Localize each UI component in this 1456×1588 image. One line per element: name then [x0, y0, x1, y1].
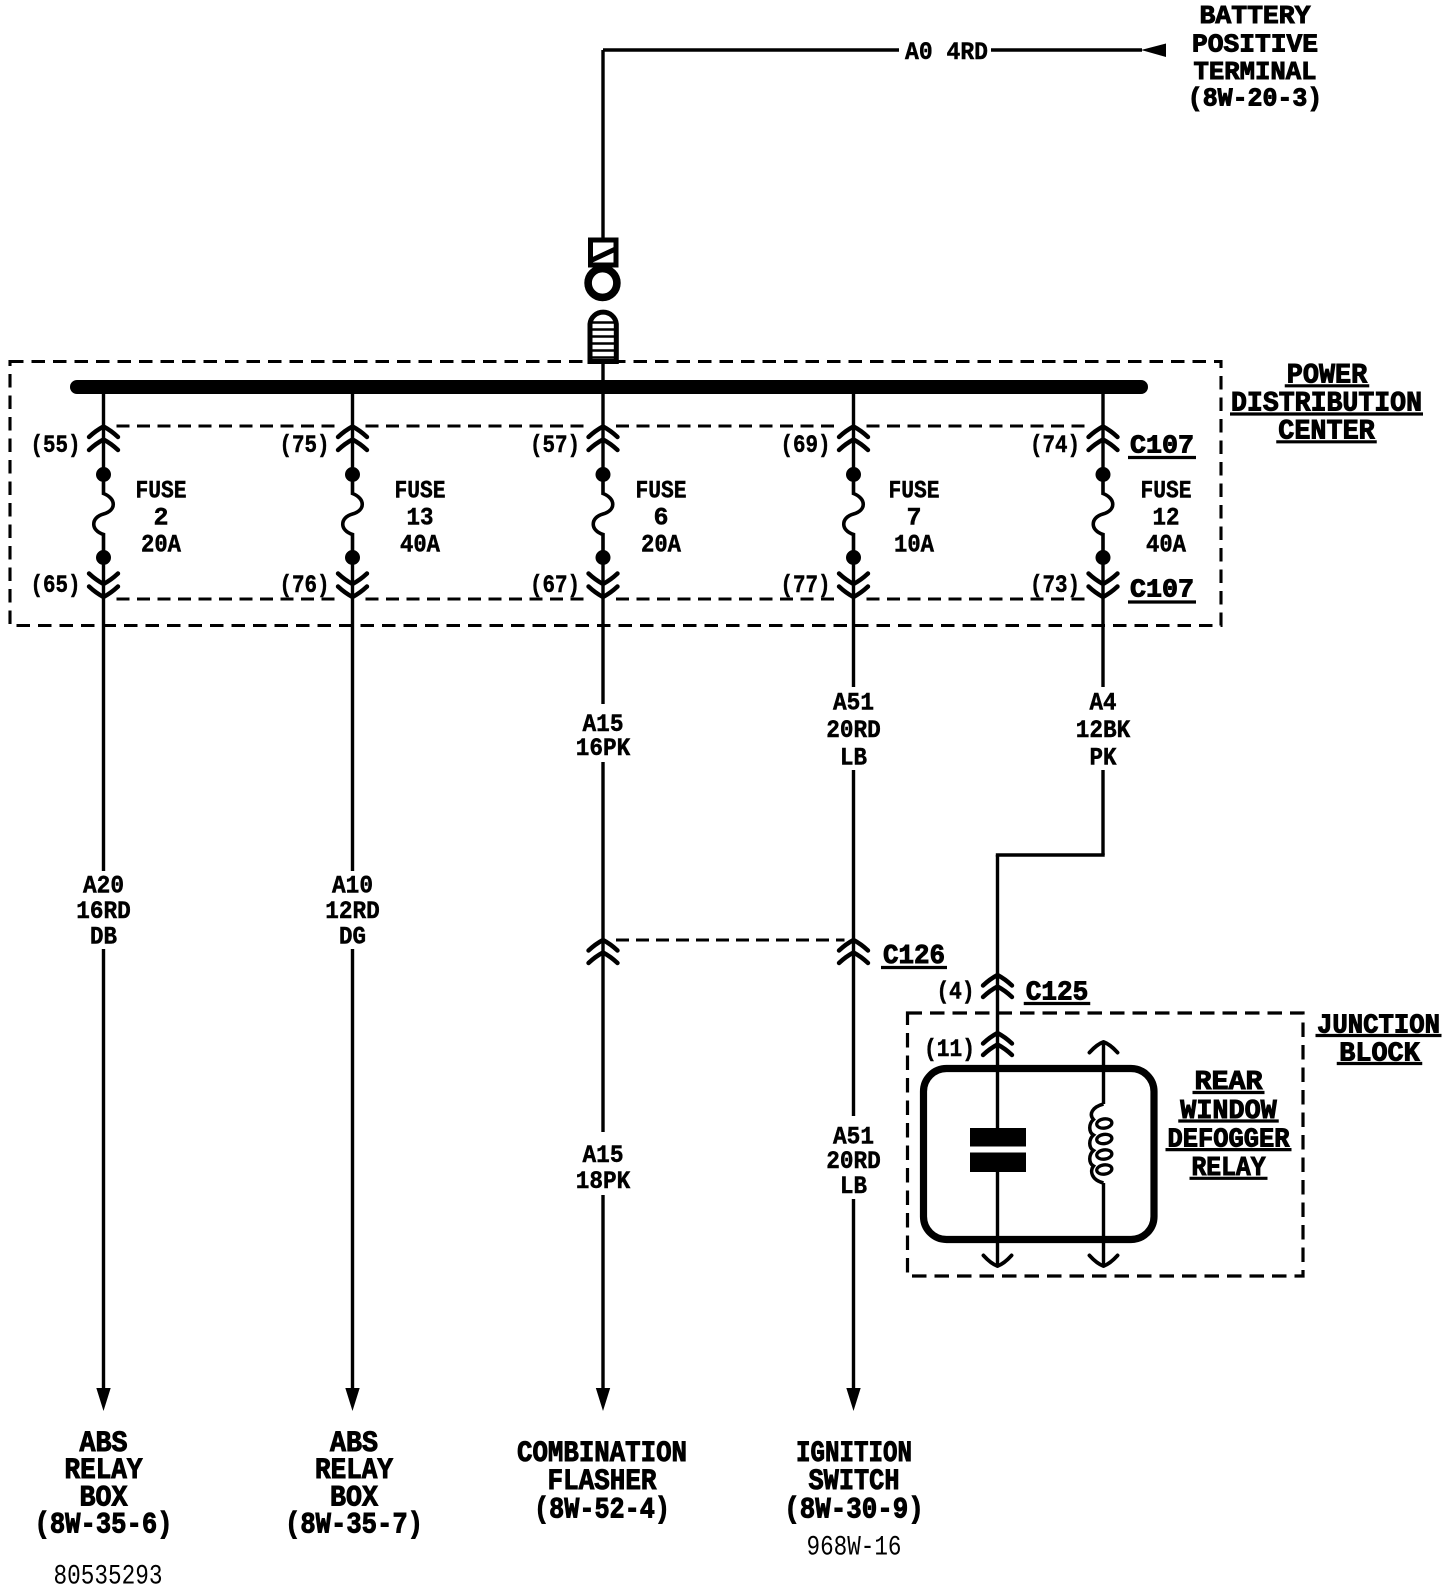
svg-text:(73): (73) [1030, 571, 1080, 600]
svg-text:(4): (4) [937, 978, 975, 1007]
svg-text:(69): (69) [781, 431, 831, 460]
svg-text:A4: A4 [1090, 689, 1117, 718]
svg-text:40A: 40A [1146, 531, 1186, 560]
svg-text:LB: LB [840, 744, 867, 773]
svg-text:(11): (11) [924, 1035, 975, 1064]
svg-text:FUSE: FUSE [636, 477, 687, 506]
svg-text:(55): (55) [31, 431, 81, 460]
svg-text:968W-16: 968W-16 [807, 1533, 902, 1564]
svg-text:A15: A15 [583, 1141, 624, 1170]
svg-text:(74): (74) [1030, 431, 1080, 460]
svg-text:13: 13 [407, 504, 434, 533]
svg-text:18PK: 18PK [576, 1167, 631, 1196]
svg-text:12: 12 [1153, 504, 1180, 533]
svg-text:C107: C107 [1130, 575, 1194, 605]
svg-text:(8W-30-9): (8W-30-9) [784, 1493, 924, 1527]
svg-text:6: 6 [653, 504, 668, 533]
svg-text:(77): (77) [781, 571, 831, 600]
svg-text:(65): (65) [31, 571, 81, 600]
svg-text:80535293: 80535293 [54, 1562, 163, 1588]
svg-text:A51: A51 [833, 689, 874, 718]
svg-text:(8W-35-6): (8W-35-6) [35, 1509, 173, 1543]
svg-text:POSITIVE: POSITIVE [1192, 30, 1318, 60]
svg-text:FUSE: FUSE [395, 477, 446, 506]
svg-text:10A: 10A [894, 531, 934, 560]
svg-text:DB: DB [90, 923, 117, 952]
svg-text:12BK: 12BK [1076, 716, 1131, 745]
svg-text:(8W-52-4): (8W-52-4) [534, 1493, 670, 1527]
svg-text:20A: 20A [641, 531, 681, 560]
svg-text:BATTERY: BATTERY [1200, 1, 1311, 31]
svg-text:FUSE: FUSE [1141, 477, 1192, 506]
svg-text:20RD: 20RD [826, 716, 881, 745]
svg-text:2: 2 [153, 504, 168, 533]
svg-text:PK: PK [1090, 744, 1117, 773]
svg-text:LB: LB [840, 1172, 867, 1201]
svg-text:(57): (57) [530, 431, 580, 460]
svg-text:(75): (75) [280, 431, 330, 460]
svg-text:16PK: 16PK [576, 734, 631, 763]
svg-text:(8W-20-3): (8W-20-3) [1188, 84, 1323, 114]
svg-text:TERMINAL: TERMINAL [1194, 57, 1317, 87]
svg-text:20A: 20A [141, 531, 181, 560]
svg-text:(8W-35-7): (8W-35-7) [285, 1509, 423, 1543]
svg-text:FUSE: FUSE [136, 477, 187, 506]
svg-text:7: 7 [906, 504, 921, 533]
svg-text:A0 4RD: A0 4RD [905, 38, 988, 67]
svg-text:FUSE: FUSE [889, 477, 940, 506]
svg-text:(67): (67) [530, 571, 580, 600]
svg-text:40A: 40A [400, 531, 440, 560]
svg-text:(76): (76) [280, 571, 330, 600]
svg-text:DG: DG [339, 923, 366, 952]
